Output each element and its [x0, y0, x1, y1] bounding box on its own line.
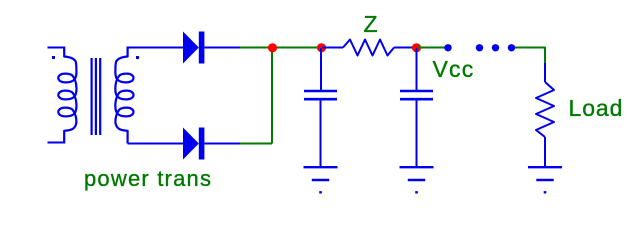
continuation dot 1	[444, 44, 451, 51]
resistor Load zigzag	[536, 82, 554, 137]
transformer T1 primary winding left stub top	[48, 47, 65, 49]
continuation dot 2	[476, 44, 483, 51]
node B junction dot	[317, 43, 326, 52]
ground symbol C2	[400, 167, 434, 192]
wire node C to continuation dot	[417, 47, 448, 49]
label power trans	[84, 168, 212, 190]
transformer T1 secondary winding coil	[115, 47, 133, 144]
diode D2 cathode bar	[199, 128, 205, 160]
wire capacitor C1 top lead	[320, 48, 322, 90]
transformer T1 primary winding coil	[58, 47, 76, 144]
transformer T1 primary phase dot	[52, 56, 55, 59]
wire capacitor C2 top lead	[416, 48, 418, 90]
wire capacitor C2 bottom lead	[416, 100, 418, 167]
transformer T1 primary winding left stub bottom	[48, 142, 65, 144]
wire secondary bottom to diode D2	[128, 143, 183, 145]
wire D2 cathode blue segment	[204, 143, 240, 145]
wire load top lead	[544, 63, 546, 82]
transformer T1 core line 1	[90, 58, 92, 135]
wire vertical from D2 output up to node A	[271, 48, 273, 144]
diode D1 cathode bar	[199, 32, 205, 64]
continuation dot 3	[492, 44, 499, 51]
ground symbol load	[528, 167, 562, 192]
resistor Z zigzag	[343, 40, 394, 56]
wire D1 cathode green segment to node A	[240, 47, 273, 49]
wire D1 cathode blue segment	[204, 47, 240, 49]
transformer T1 core line 3	[99, 58, 101, 135]
wire load bottom lead	[544, 137, 546, 167]
continuation dot 4	[508, 44, 515, 51]
wire resistor Z to node C	[394, 47, 417, 49]
node A junction dot	[268, 43, 277, 52]
label Z value for resistor	[364, 13, 378, 36]
diode D2 triangle	[183, 128, 199, 160]
node C junction dot	[412, 43, 421, 52]
capacitor C2 plates	[400, 91, 433, 99]
transformer T1 secondary phase dot	[136, 56, 139, 59]
transformer T1 core line 2	[95, 58, 97, 135]
label Vcc net name	[433, 58, 475, 81]
ground symbol C1	[304, 167, 338, 192]
wire node A to node B	[272, 47, 322, 49]
label Load	[569, 97, 624, 120]
wire node B to resistor Z	[322, 47, 343, 49]
wire D2 cathode green segment	[240, 143, 272, 145]
wire secondary top to diode D1	[128, 47, 183, 49]
wire continuation to load corner	[515, 48, 545, 64]
wire capacitor C1 bottom lead	[320, 100, 322, 167]
diode D1 triangle	[183, 32, 199, 64]
capacitor C1 plates	[304, 91, 337, 99]
